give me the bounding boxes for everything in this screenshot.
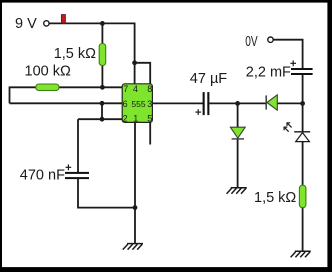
ground under pin 1 — [123, 244, 143, 250]
emission arrow 1 — [287, 123, 292, 128]
svg-text:1,5 kΩ: 1,5 kΩ — [254, 190, 296, 206]
svg-text:2: 2 — [123, 114, 128, 124]
svg-text:2,2 mF: 2,2 mF — [246, 65, 291, 81]
diode D2 green pointing left — [266, 95, 277, 110]
svg-text:470 nF: 470 nF — [20, 168, 65, 184]
capacitor C1 470 nF electrolytic — [20, 164, 89, 183]
ground under diode D1 — [227, 188, 247, 194]
svg-text:9 V: 9 V — [15, 16, 37, 32]
wire 1.5k resistor down to ground — [302, 208, 304, 252]
node junction on top rail — [100, 21, 105, 26]
wire top rail from 9V terminal to corner down to pin 4 — [49, 23, 135, 84]
wire diode D1 cathode down to ground — [237, 139, 239, 188]
capacitor C3 2,2 mF electrolytic — [246, 60, 313, 80]
node junction pin 1 / cap return — [133, 205, 138, 210]
resistor R3 1,5 kOhm vertical bottom — [254, 185, 306, 208]
wire pin2 node down to 470nF top plate — [77, 119, 79, 172]
node junction pin 7 — [100, 85, 105, 90]
wire left vertical joining 100k to pin 6 — [9, 87, 11, 104]
wire vertical joining pin 6 to pin 2 — [101, 103, 103, 119]
diode D1 green pointing down — [230, 127, 245, 139]
svg-text:1,5 kΩ: 1,5 kΩ — [54, 46, 96, 62]
wire pin 7 horizontal — [10, 86, 123, 88]
node junction pin 2 — [100, 117, 105, 122]
svg-text:3: 3 — [147, 99, 152, 109]
wire pin 6 horizontal — [10, 102, 123, 104]
capacitor C2 47 uF electrolytic — [190, 71, 228, 115]
wire 2.2mF top to 0V terminal — [273, 40, 302, 68]
svg-text:0V: 0V — [245, 34, 258, 50]
svg-text:100 kΩ: 100 kΩ — [25, 63, 71, 79]
op-amp substitute: 555 timer U1 — [122, 84, 152, 124]
wire LED D3 to 1.5k resistor — [302, 142, 304, 186]
LED D3 pointing up with emission arrows — [284, 123, 310, 142]
node A junction — [235, 101, 240, 106]
wire 47uF to node A — [209, 102, 266, 104]
switch red indicator tick — [61, 15, 65, 24]
svg-text:555: 555 — [131, 99, 145, 109]
svg-text:1: 1 — [133, 114, 138, 124]
node junction pin4/pin8 branch — [132, 60, 137, 65]
wire branch to pin 8 — [135, 63, 151, 84]
wire 1.5k resistor chain from top rail to pin7 node — [101, 23, 103, 87]
svg-text:4: 4 — [133, 84, 138, 94]
svg-text:7: 7 — [123, 84, 128, 94]
wire pin 2 horizontal — [78, 118, 123, 120]
wire pin 1 down to ground — [134, 122, 136, 243]
svg-text:5: 5 — [147, 114, 152, 124]
svg-text:6: 6 — [123, 99, 128, 109]
resistor R1 1,5 kOhm vertical top — [54, 44, 106, 66]
terminal circle 9V — [44, 21, 49, 26]
svg-text:47 µF: 47 µF — [190, 71, 228, 87]
wire node A down to diode D1 — [237, 103, 239, 127]
terminal circle 0V — [268, 37, 273, 42]
wire node B up to 2.2mF — [302, 75, 304, 103]
node B junction — [300, 101, 305, 106]
ground under R3 — [291, 251, 311, 257]
wire 470nF bottom plate down and right to pin1 ground line — [78, 179, 135, 208]
svg-text:8: 8 — [147, 84, 152, 94]
resistor R2 100 kOhm horizontal — [25, 63, 71, 90]
wire node B down to LED D3 — [302, 103, 304, 131]
wire pin 5 stub — [149, 122, 151, 144]
emission arrow 2 — [284, 127, 289, 132]
node junction pin 6 — [100, 101, 105, 106]
wire pin 3 output to 47uF — [152, 102, 203, 104]
wire diode D2 to node B — [277, 102, 302, 104]
